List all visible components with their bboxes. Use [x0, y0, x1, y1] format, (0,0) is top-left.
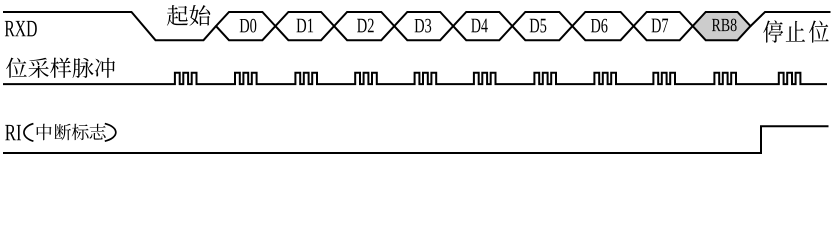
wire bit-sampling pulse line [3, 73, 827, 84]
node D6 bit cell [572, 12, 633, 40]
node D6 label [591, 19, 600, 32]
node stop-bit label 停止位 [763, 20, 783, 42]
node D4 label [471, 19, 480, 33]
node D1 bit cell [275, 12, 334, 40]
wire RXD start-bit segment [3, 12, 216, 40]
node D7 bit cell [634, 12, 693, 40]
node D5 label [530, 19, 539, 33]
node D2 label [357, 19, 367, 33]
node RXD label [5, 21, 15, 36]
wire RI interrupt-flag line [3, 126, 829, 153]
node RB8 bit cell [693, 12, 751, 40]
node sampling-pulse label 位采样脉冲 [6, 58, 27, 78]
node D5 bit cell [512, 12, 572, 40]
node D3 bit cell [394, 12, 453, 40]
node D2 bit cell [334, 12, 394, 40]
node D7 label [652, 19, 661, 33]
node RB8 label [712, 19, 721, 31]
node D0 label [240, 19, 249, 32]
wire stop-bit segment [751, 12, 831, 26]
node D3 label [415, 19, 424, 32]
node RI label [5, 125, 16, 140]
node D4 bit cell [453, 12, 512, 40]
node RI label CJK （中断标志） [37, 124, 52, 140]
node D1 label [297, 19, 307, 33]
node start-bit label 起始 [167, 5, 188, 26]
node D0 bit cell [216, 12, 275, 40]
